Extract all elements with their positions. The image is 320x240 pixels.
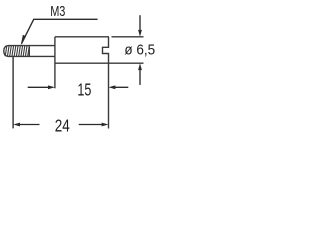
svg-text:ø 6,5: ø 6,5: [124, 42, 155, 59]
body top edge: [55, 36, 109, 38]
body bottom edge with extension to the right: [55, 62, 144, 64]
svg-text:15: 15: [77, 79, 91, 99]
dimension 15 left outside arrow: [28, 86, 49, 88]
arrowhead down to top extension: [138, 30, 142, 37]
dimension 24 line right segment with arrowhead: [79, 124, 103, 126]
svg-text:M3: M3: [50, 3, 65, 20]
top extension line for diameter dim: [112, 36, 144, 38]
thread hatching: [5, 46, 29, 56]
body cylinder (ø6,5): [55, 37, 144, 129]
thread runout line: [28, 46, 30, 57]
leader line for M3: [22, 19, 98, 43]
left extension line for dim 24: [12, 57, 14, 128]
right face with slot notch, continues down as extension line: [103, 37, 109, 129]
svg-text:24: 24: [55, 116, 70, 136]
dimension ø 6,5 arrows: [139, 15, 141, 85]
threaded stud outline (M3 thread with domed tip): [4, 46, 55, 57]
step / left face of body, continues down as extension line for dim 15: [54, 37, 56, 89]
dimension 24 line left segment with arrowhead: [19, 124, 39, 126]
dimension 15 right outside arrow: [115, 86, 129, 88]
leader arrowhead: [21, 35, 26, 46]
arrowhead up to bottom extension: [138, 63, 142, 70]
